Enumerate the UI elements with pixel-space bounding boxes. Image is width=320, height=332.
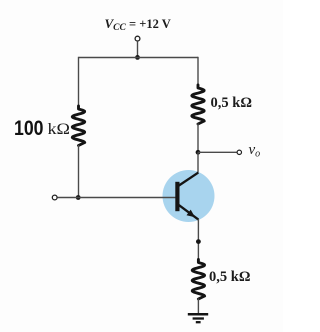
wire collector upper	[197, 124, 199, 153]
junction dot emitter node	[196, 239, 201, 244]
junction dot VCC node	[135, 55, 140, 60]
transistor Q1 highlight circle	[163, 170, 215, 222]
transistor Q1 base bar	[175, 182, 179, 211]
terminal VCC	[135, 36, 140, 41]
terminal input	[52, 195, 57, 200]
transistor Q1 collector lead	[178, 173, 198, 186]
wire left branch lower	[78, 145, 80, 198]
wire to ground	[197, 299, 199, 314]
resistor RC squiggle	[192, 85, 204, 124]
ground bar 2	[193, 317, 204, 319]
junction dot base node	[76, 195, 81, 200]
wire base	[57, 197, 175, 199]
terminal vo	[237, 150, 241, 154]
svg-text:0,5 kΩ: 0,5 kΩ	[211, 95, 252, 111]
wire top rail	[79, 57, 199, 59]
wire emitter	[197, 219, 199, 260]
svg-text:0,5 kΩ: 0,5 kΩ	[209, 269, 250, 285]
resistor R1 squiggle	[72, 106, 84, 146]
transistor Q1 emitter arrow	[187, 210, 196, 218]
wire left branch upper	[78, 57, 80, 107]
wire vo	[198, 151, 237, 153]
svg-text:kΩ: kΩ	[48, 121, 71, 138]
wire right branch upper	[197, 57, 199, 86]
resistor RE squiggle	[192, 260, 204, 300]
ground bar 1	[188, 313, 208, 316]
transistor Q1 emitter lead	[178, 205, 198, 220]
ground bar 3	[196, 321, 201, 323]
junction dot vo node	[196, 150, 201, 155]
wire collector link into circle	[197, 152, 199, 172]
wire VCC stub	[137, 41, 139, 57]
svg-text:100: 100	[14, 116, 44, 140]
